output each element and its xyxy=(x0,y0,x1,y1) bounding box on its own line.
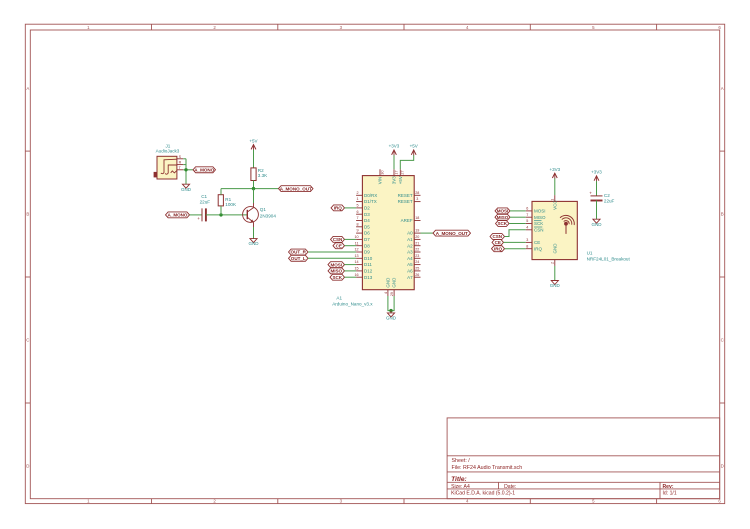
svg-text:R: R xyxy=(179,161,182,165)
wire MOSI to D11 xyxy=(345,264,357,266)
A1 pin 4 GND bottom xyxy=(384,277,391,296)
global label CSN at U1 xyxy=(490,234,505,240)
svg-text:A0: A0 xyxy=(407,231,413,236)
svg-text:CSN: CSN xyxy=(534,227,544,232)
svg-text:12: 12 xyxy=(354,248,358,252)
svg-text:GND: GND xyxy=(249,241,260,246)
J1 pin R xyxy=(177,164,183,166)
wire R2 to node xyxy=(253,181,255,189)
svg-text:MISO: MISO xyxy=(534,215,546,220)
svg-text:GND: GND xyxy=(552,243,557,254)
A1 pin 23 A4 xyxy=(407,254,420,261)
global label MOSI at U1 xyxy=(495,208,510,214)
svg-text:RESET: RESET xyxy=(398,199,413,204)
svg-text:AREF: AREF xyxy=(401,218,413,223)
svg-text:CSN: CSN xyxy=(492,234,502,239)
global label MISO at A1 D12 xyxy=(328,268,345,274)
A1 pin 10 D7 xyxy=(354,235,370,242)
wire R1 top xyxy=(220,189,222,195)
svg-text:SCK: SCK xyxy=(534,221,543,226)
A1 pin 5 D2 xyxy=(356,204,370,211)
U1 pin 7 MISO xyxy=(526,213,546,220)
svg-text:OUT_R: OUT_R xyxy=(291,250,307,255)
svg-text:15: 15 xyxy=(354,267,358,271)
global label IRQ at U1 xyxy=(492,246,505,252)
wire MISO to D12 xyxy=(345,270,357,272)
svg-text:16: 16 xyxy=(354,273,358,277)
svg-text:CE: CE xyxy=(495,240,501,245)
svg-text:D3: D3 xyxy=(364,212,370,217)
ground under Q1 xyxy=(249,239,260,247)
svg-text:25: 25 xyxy=(415,267,419,271)
A1 pin 20 A1 xyxy=(407,235,420,242)
svg-text:22: 22 xyxy=(415,248,419,252)
svg-text:+: + xyxy=(589,191,592,196)
global label SCK at A1 D13 xyxy=(330,274,345,280)
wire MOSI to U1 xyxy=(510,210,526,212)
wire collector node to A_MONO_OUT xyxy=(221,188,279,190)
U1 pin 8 IRQ xyxy=(526,244,543,251)
A1 pin 8 D5 xyxy=(356,222,370,229)
A1 pin 14 D11 xyxy=(354,260,372,267)
wire J1 T to label A_MONO xyxy=(183,169,193,171)
svg-text:GND: GND xyxy=(592,222,603,227)
svg-text:Id: 1/1: Id: 1/1 xyxy=(663,491,677,497)
junction C1/R1/Q1 base xyxy=(219,213,222,216)
svg-text:9: 9 xyxy=(357,229,359,233)
component A1 Arduino_Nano_v3.x body xyxy=(362,176,414,290)
wire Q1 emitter to gnd xyxy=(253,227,255,239)
power symbol +3V3 above A1 xyxy=(389,144,400,156)
A1 pin 28 RESET xyxy=(398,191,421,198)
wire A0 to A_MONO_OUT xyxy=(421,232,434,234)
svg-text:A1: A1 xyxy=(336,296,342,301)
wire Q1 collector xyxy=(253,189,255,203)
global label CE at U1 xyxy=(492,239,504,245)
A1 pin 18 AREF xyxy=(401,216,421,223)
svg-text:Size: A4: Size: A4 xyxy=(451,484,470,490)
A1 pin 26 A7 xyxy=(407,273,420,280)
wire U1 GND down xyxy=(554,266,556,280)
resistor R1 xyxy=(218,195,237,207)
svg-text:6: 6 xyxy=(357,210,359,214)
svg-text:MOSI: MOSI xyxy=(497,209,509,214)
global label CE at A1 D8 xyxy=(333,243,345,249)
svg-text:B: B xyxy=(721,212,724,217)
svg-text:23: 23 xyxy=(415,254,419,258)
svg-text:3V3: 3V3 xyxy=(392,176,397,185)
svg-text:IRQ: IRQ xyxy=(534,246,543,251)
svg-text:3: 3 xyxy=(416,197,418,201)
transistor Q1 2N3904 xyxy=(243,203,277,227)
wire J1 S to gnd rail xyxy=(183,158,186,160)
svg-text:22uF: 22uF xyxy=(200,200,211,205)
svg-text:4: 4 xyxy=(384,292,388,294)
ground under J1 xyxy=(181,184,192,192)
svg-text:5: 5 xyxy=(357,204,359,208)
svg-text:IRQ: IRQ xyxy=(334,206,343,211)
connector J1 AudioJack3 xyxy=(154,143,180,179)
svg-text:MISO: MISO xyxy=(330,269,342,274)
A1 pin 1 D1/TX xyxy=(356,197,377,204)
svg-text:1: 1 xyxy=(357,197,359,201)
U1 pin 5 SCK xyxy=(526,219,544,226)
wire C2 to ground xyxy=(596,201,598,220)
svg-text:D9: D9 xyxy=(364,250,370,255)
svg-text:MOSI: MOSI xyxy=(534,209,546,214)
svg-text:100K: 100K xyxy=(225,202,237,207)
svg-text:VCC: VCC xyxy=(552,200,557,210)
svg-text:+3V3: +3V3 xyxy=(389,144,400,149)
ground under U1 xyxy=(550,281,561,289)
svg-text:A: A xyxy=(721,86,724,91)
junction A1 gnd xyxy=(389,309,392,312)
wire +3V3 to pin 17 xyxy=(393,155,395,169)
wire J1 R to gnd rail xyxy=(183,164,186,166)
svg-text:7: 7 xyxy=(357,216,359,220)
power symbol +3V3 above C2 xyxy=(591,169,602,181)
svg-text:D: D xyxy=(26,464,29,469)
svg-text:A: A xyxy=(26,86,29,91)
ground under C2 xyxy=(592,219,603,227)
svg-text:+5V: +5V xyxy=(398,176,403,184)
svg-text:+3V3: +3V3 xyxy=(591,169,602,174)
svg-text:2: 2 xyxy=(551,262,555,264)
wire CE to D8 xyxy=(345,245,357,247)
svg-text:Sheet: /: Sheet: / xyxy=(452,458,471,464)
global label OUT_L at A1 D10 xyxy=(289,255,309,261)
svg-text:2: 2 xyxy=(357,191,359,195)
wire SCK to D13 xyxy=(345,276,357,278)
svg-text:A5: A5 xyxy=(407,262,413,267)
svg-text:10: 10 xyxy=(354,235,358,239)
svg-text:C2: C2 xyxy=(604,193,610,198)
svg-text:D8: D8 xyxy=(364,243,370,248)
svg-text:A_MONO_OUT: A_MONO_OUT xyxy=(436,231,468,236)
svg-text:28: 28 xyxy=(415,191,419,195)
svg-text:17: 17 xyxy=(394,170,398,174)
title block xyxy=(447,418,720,499)
A1 pin 9 D6 xyxy=(356,229,370,236)
svg-text:14: 14 xyxy=(354,260,358,264)
svg-text:8: 8 xyxy=(357,222,359,226)
svg-text:+3V3: +3V3 xyxy=(549,167,560,172)
A1 pin 30 VIN top xyxy=(378,169,385,184)
svg-text:Title:: Title: xyxy=(451,476,467,483)
svg-text:D6: D6 xyxy=(364,231,370,236)
svg-text:19: 19 xyxy=(415,229,419,233)
svg-text:+5V: +5V xyxy=(249,138,257,143)
svg-text:C1: C1 xyxy=(201,194,207,199)
global label SCK at U1 xyxy=(496,221,510,227)
wire label to C1 xyxy=(190,214,203,216)
global label IRQ at A1 D2 xyxy=(331,205,345,211)
wire OUT_R to D9 xyxy=(308,251,356,253)
svg-text:D12: D12 xyxy=(364,269,373,274)
wire OUT_L to D10 xyxy=(308,257,356,259)
U1 pin 4 CSN xyxy=(526,225,544,232)
A1 pin 7 D4 xyxy=(356,216,370,223)
J1 pin S xyxy=(177,158,183,160)
svg-text:27: 27 xyxy=(401,170,405,174)
svg-text:D: D xyxy=(721,464,724,469)
A1 pin 21 A2 xyxy=(407,241,420,248)
A1 pin 19 A0 xyxy=(407,229,420,236)
svg-text:26: 26 xyxy=(415,273,419,277)
svg-text:6: 6 xyxy=(526,207,528,211)
global label MOSI at A1 D11 xyxy=(328,262,345,268)
wire CSN to U1 xyxy=(505,230,526,237)
power symbol +5V above A1 xyxy=(410,144,418,156)
svg-text:11: 11 xyxy=(355,241,359,245)
svg-text:+5V: +5V xyxy=(410,144,418,149)
wire R1 bottom xyxy=(220,206,222,215)
svg-text:24: 24 xyxy=(415,260,419,264)
svg-text:Date:: Date: xyxy=(504,484,516,490)
wire +3V3 to U1 VCC xyxy=(554,178,556,195)
svg-text:C: C xyxy=(721,338,724,343)
global label A_MONO at jack xyxy=(193,167,216,173)
global label A_MONO_OUT at R2 xyxy=(279,186,314,192)
svg-text:A_MONO: A_MONO xyxy=(194,168,214,173)
U1 pin 3 CE xyxy=(526,238,541,245)
U1 pin 1 VCC top xyxy=(551,195,558,210)
svg-text:D1/TX: D1/TX xyxy=(364,199,377,204)
junction at jack tip/gnd rail xyxy=(184,168,187,171)
A1 pin 12 D9 xyxy=(354,248,370,255)
U1 pin 2 GND bottom xyxy=(551,243,558,266)
U1 antenna symbol xyxy=(560,215,574,234)
A1 pin 22 A3 xyxy=(407,248,420,255)
svg-text:D11: D11 xyxy=(364,262,372,267)
svg-text:D4: D4 xyxy=(364,218,370,223)
svg-text:22uF: 22uF xyxy=(604,198,615,203)
svg-text:7: 7 xyxy=(526,213,528,217)
capacitor C2 22uF xyxy=(589,191,614,204)
svg-text:A1: A1 xyxy=(407,237,413,242)
wire SCK to U1 xyxy=(509,223,526,225)
wire +5V to pin 27 xyxy=(400,155,413,169)
A1 pin 11 D8 xyxy=(355,241,370,248)
svg-text:29: 29 xyxy=(390,292,394,296)
A1 pin 15 D12 xyxy=(354,267,372,274)
J1 pin T xyxy=(177,169,183,171)
svg-text:GND: GND xyxy=(386,277,391,288)
svg-text:IRQ: IRQ xyxy=(494,246,503,251)
svg-text:GND: GND xyxy=(392,277,397,288)
capacitor C1 22uF xyxy=(197,194,210,221)
A1 pin 17 3V3 top xyxy=(392,169,399,184)
wire C1 to Q1 base xyxy=(206,214,247,216)
svg-text:SCK: SCK xyxy=(497,221,507,226)
U1 pin 6 MOSI xyxy=(526,207,546,214)
svg-text:A6: A6 xyxy=(407,269,413,274)
global label A_MONO at C1 xyxy=(166,212,190,218)
ground under A1 xyxy=(386,313,397,321)
svg-text:Arduino_Nano_v3.x: Arduino_Nano_v3.x xyxy=(332,302,373,307)
A1 pin 16 D13 xyxy=(354,273,372,280)
svg-text:CE: CE xyxy=(534,240,540,245)
svg-text:GND: GND xyxy=(181,187,192,192)
component U1 NRF24L01_Breakout body xyxy=(532,201,577,259)
A1 pin 24 A5 xyxy=(407,260,420,267)
svg-text:GND: GND xyxy=(550,283,561,288)
svg-text:OUT_L: OUT_L xyxy=(291,256,306,261)
A1 pin 6 D3 xyxy=(356,210,370,217)
svg-text:+: + xyxy=(197,216,200,221)
svg-text:CSN: CSN xyxy=(333,237,343,242)
svg-text:SCK: SCK xyxy=(332,275,342,280)
svg-text:GND: GND xyxy=(386,316,397,321)
wire MISO to U1 xyxy=(510,216,526,218)
wire IRQ to D2 xyxy=(345,207,357,209)
wire IRQ to U1 xyxy=(505,248,526,250)
svg-text:30: 30 xyxy=(380,170,384,174)
wire CSN to D7 xyxy=(345,238,357,240)
svg-text:D7: D7 xyxy=(364,237,370,242)
svg-text:D5: D5 xyxy=(364,224,370,229)
A1 pin 25 A6 xyxy=(407,267,420,274)
svg-text:18: 18 xyxy=(415,216,419,220)
svg-text:C: C xyxy=(26,338,29,343)
svg-text:20: 20 xyxy=(415,235,419,239)
svg-text:21: 21 xyxy=(415,241,419,245)
svg-text:D2: D2 xyxy=(364,206,370,211)
power symbol +5V xyxy=(249,138,257,150)
svg-text:Q1: Q1 xyxy=(260,207,267,212)
svg-text:3.3K: 3.3K xyxy=(258,173,268,178)
global label CSN at A1 D7 xyxy=(331,236,345,242)
svg-text:A7: A7 xyxy=(407,275,413,280)
svg-text:A_MONO_OUT: A_MONO_OUT xyxy=(280,186,312,191)
svg-text:D0/RX: D0/RX xyxy=(364,193,377,198)
wire +3V3 to C2 xyxy=(596,181,598,196)
svg-text:5: 5 xyxy=(526,219,528,223)
svg-text:MISO: MISO xyxy=(497,215,509,220)
svg-text:Rev:: Rev: xyxy=(663,484,674,490)
svg-text:8: 8 xyxy=(526,244,528,248)
svg-text:KiCad E.D.A. kicad (5.0.2)-1: KiCad E.D.A. kicad (5.0.2)-1 xyxy=(451,491,515,497)
svg-text:MOSI: MOSI xyxy=(330,262,342,267)
svg-text:A3: A3 xyxy=(407,250,413,255)
svg-text:A4: A4 xyxy=(407,256,413,261)
A1 pin 29 GND bottom xyxy=(390,277,397,296)
svg-text:A_MONO: A_MONO xyxy=(168,213,188,218)
svg-text:4: 4 xyxy=(526,225,528,229)
svg-text:D13: D13 xyxy=(364,275,373,280)
svg-text:U1: U1 xyxy=(587,250,593,255)
svg-text:VIN: VIN xyxy=(378,177,383,185)
wire gnd rail vertical xyxy=(185,159,187,184)
A1 pin 27 +5V top xyxy=(398,169,405,184)
svg-text:NRF24L01_Breakout: NRF24L01_Breakout xyxy=(587,257,631,262)
svg-text:A2: A2 xyxy=(407,243,413,248)
svg-text:3: 3 xyxy=(526,238,528,242)
A1 pin 2 D0/RX xyxy=(356,191,377,198)
global label OUT_R at A1 D9 xyxy=(289,249,309,255)
svg-text:CE: CE xyxy=(336,243,342,248)
global label MISO at U1 xyxy=(495,214,510,220)
wire A1 gnd pins to ground xyxy=(388,296,394,311)
wire +5V to R2 xyxy=(253,150,255,168)
A1 pin 3 RESET xyxy=(398,197,421,204)
wire CE to U1 xyxy=(504,241,526,243)
svg-text:13: 13 xyxy=(354,254,358,258)
svg-text:B: B xyxy=(26,212,29,217)
junction R2/collector node xyxy=(252,187,255,190)
svg-text:2N3904: 2N3904 xyxy=(260,214,277,219)
svg-text:File: RF24 Audio Transmit.sch: File: RF24 Audio Transmit.sch xyxy=(452,465,523,471)
global label A_MONO_OUT at A0 xyxy=(433,230,471,236)
svg-text:AudioJack3: AudioJack3 xyxy=(156,148,180,153)
power symbol +3V3 above U1 xyxy=(549,167,560,179)
svg-text:D10: D10 xyxy=(364,256,373,261)
svg-text:RESET: RESET xyxy=(398,193,413,198)
resistor R2 xyxy=(251,168,268,181)
A1 pin 13 D10 xyxy=(354,254,372,261)
